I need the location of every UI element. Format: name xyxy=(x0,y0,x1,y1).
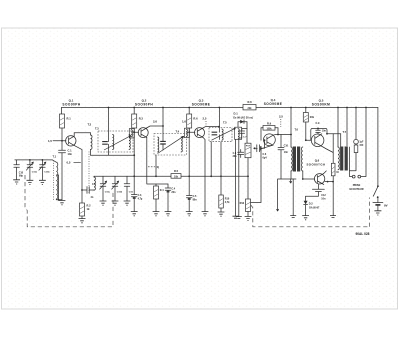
wire: T7 center tap xyxy=(346,108,348,147)
battery 9V xyxy=(373,197,383,211)
dashed gang: volume switch link xyxy=(251,198,370,227)
capacitor C12 xyxy=(306,184,325,196)
T7 secondary xyxy=(350,147,353,177)
ground: battery xyxy=(374,211,381,215)
wire: Q5 over line xyxy=(311,128,341,146)
capacitor C8 xyxy=(238,150,244,158)
svg-text:4,7µ: 4,7µ xyxy=(138,197,143,200)
svg-text:ECOUTEUR: ECOUTEUR xyxy=(349,188,363,191)
resistor R1 xyxy=(60,114,65,128)
svg-text:T.3: T.3 xyxy=(95,127,99,131)
T2 secondary winding xyxy=(94,177,95,190)
svg-text:2,6: 2,6 xyxy=(153,120,157,124)
transistor Q3 xyxy=(195,128,205,138)
variable capacitor C15b xyxy=(40,160,46,180)
ground: R10 xyxy=(218,212,225,216)
T3 secondary box xyxy=(129,129,134,138)
svg-text:C.4: C.4 xyxy=(171,188,175,191)
resistor R11 xyxy=(305,108,307,141)
ground: R4 xyxy=(153,212,160,216)
svg-text:10k: 10k xyxy=(174,176,179,179)
wire: T4 bottom drop xyxy=(155,155,157,176)
wire: tank / AGC bus xyxy=(94,175,248,177)
svg-text:SOO80TGH: SOO80TGH xyxy=(306,162,325,166)
svg-text:90AL 028: 90AL 028 xyxy=(356,232,370,236)
wire: antenna tuning top xyxy=(15,159,53,161)
transistor Q2 xyxy=(138,128,148,138)
transistor Q5 xyxy=(311,134,324,147)
resistor R9 xyxy=(263,126,275,131)
svg-text:R10: R10 xyxy=(225,197,230,200)
dashed gang: tuning capacitors xyxy=(25,175,113,227)
svg-text:6µ4: 6µ4 xyxy=(263,157,268,160)
svg-text:C.2: C.2 xyxy=(92,183,96,186)
capacitor C6 xyxy=(257,140,265,152)
wire: T6 primary bottom rail xyxy=(277,171,296,211)
resistor R4 xyxy=(155,184,157,212)
wire: T3 bottom rail xyxy=(91,154,135,156)
capacitor C16 padder xyxy=(124,176,130,201)
svg-text:D.2: D.2 xyxy=(309,203,314,206)
wire: Q3 base xyxy=(187,131,195,133)
svg-text:C10: C10 xyxy=(19,172,24,174)
resistor R12 xyxy=(246,199,251,212)
svg-text:D.1: D.1 xyxy=(234,112,239,116)
svg-text:R.1: R.1 xyxy=(67,117,72,121)
svg-text:T.1: T.1 xyxy=(53,155,57,159)
resistor R3 xyxy=(133,108,135,133)
wire: Q3 collector xyxy=(203,127,219,128)
capacitor C7 xyxy=(239,129,247,217)
svg-text:R.9: R.9 xyxy=(267,121,272,125)
svg-text:C.3: C.3 xyxy=(138,194,142,197)
svg-text:R.6: R.6 xyxy=(193,117,198,121)
svg-text:100k: 100k xyxy=(266,128,272,130)
ground: R12 xyxy=(245,216,252,220)
capacitor C10 xyxy=(14,160,20,180)
capacitor C4 xyxy=(165,184,171,212)
svg-text:OA 95-97: OA 95-97 xyxy=(309,207,320,210)
wire: T1 tap xyxy=(56,175,58,200)
potentiometer P1 xyxy=(245,143,251,158)
svg-text:R.8: R.8 xyxy=(247,100,252,104)
capacitor C3 xyxy=(131,176,137,211)
svg-text:10n: 10n xyxy=(68,152,73,156)
svg-text:22k: 22k xyxy=(248,107,253,110)
svg-text:9V: 9V xyxy=(384,204,388,208)
wire: diode output down to pot xyxy=(247,122,248,144)
node: Q4 base xyxy=(264,139,266,141)
svg-text:20k: 20k xyxy=(310,116,315,119)
transistor Q6 xyxy=(314,174,324,184)
ground: D2 xyxy=(302,216,309,220)
wire: pot bottom to R12 xyxy=(247,158,249,199)
svg-text:T.2: T.2 xyxy=(88,122,92,126)
ground: C5 xyxy=(186,212,193,216)
ground: C10 xyxy=(13,180,20,184)
svg-text:C12: C12 xyxy=(321,194,326,197)
resistor R6 xyxy=(188,108,190,133)
wire: Q4 emitter xyxy=(251,145,273,202)
svg-text:2,5: 2,5 xyxy=(203,117,207,121)
wire: detector ground drops xyxy=(235,139,237,216)
wire: rail ground drop xyxy=(292,179,294,216)
wire: Q1 collector chain vertical xyxy=(61,108,64,200)
T4 secondary box xyxy=(184,128,189,137)
svg-text:10n: 10n xyxy=(321,198,326,201)
node: Q1 base junction xyxy=(61,140,63,142)
svg-text:10n: 10n xyxy=(284,151,289,154)
variable capacitor C15a xyxy=(27,160,33,180)
wire: Q3 emitter xyxy=(203,138,205,212)
svg-text:C.1: C.1 xyxy=(68,148,73,152)
svg-text:10n: 10n xyxy=(322,130,327,133)
earphone jack xyxy=(352,175,355,178)
resistor hatching xyxy=(60,118,64,125)
svg-text:C15a: C15a xyxy=(32,172,38,174)
ground: C4 xyxy=(165,212,172,216)
svg-text:SOO90PH: SOO90PH xyxy=(135,102,153,106)
svg-text:C10: C10 xyxy=(284,144,289,147)
variable capacitor C15d xyxy=(112,176,118,201)
wire: T1 bottom xyxy=(56,198,62,201)
svg-text:SOS90KM: SOS90KM xyxy=(312,102,330,106)
svg-text:4,7k: 4,7k xyxy=(225,201,230,204)
variable capacitor C15c xyxy=(100,176,106,201)
svg-text:C.6: C.6 xyxy=(263,153,267,156)
resistor R8 in bus xyxy=(243,105,256,110)
T6 secondary xyxy=(301,147,302,171)
svg-text:T.5: T.5 xyxy=(223,120,227,124)
diode D2 xyxy=(305,196,307,201)
capacitor C10 xyxy=(278,135,284,180)
ground: C15d xyxy=(112,201,119,205)
node: emitter/C2 junction xyxy=(81,189,83,191)
svg-text:C.9: C.9 xyxy=(316,122,321,125)
wire: Q2 emitter xyxy=(147,138,168,185)
wire: Q1 base lead xyxy=(53,140,66,142)
ground: C15b xyxy=(39,180,46,184)
svg-text:1,5: 1,5 xyxy=(48,139,52,143)
wire: Q5 base xyxy=(306,139,312,141)
svg-text:20n: 20n xyxy=(171,191,176,194)
svg-text:T.6: T.6 xyxy=(295,128,299,132)
ground: C15c xyxy=(100,201,107,205)
svg-text:R.2: R.2 xyxy=(87,203,92,207)
ground: C15a xyxy=(27,180,34,184)
svg-text:0,5: 0,5 xyxy=(67,161,71,165)
resistor R10 xyxy=(220,142,222,212)
svg-text:C15b: C15b xyxy=(44,172,50,174)
svg-text:20n: 20n xyxy=(233,156,238,158)
transistor Q1 xyxy=(66,136,76,146)
wire: Q1 emitter drop xyxy=(74,146,82,190)
svg-text:R.5: R.5 xyxy=(174,169,179,173)
transistor Q4 xyxy=(264,134,276,146)
ground: T1 xyxy=(59,201,66,205)
wire: top supply bus xyxy=(62,107,378,109)
wire: Q1 collector to T2 xyxy=(74,133,90,137)
svg-text:SOO90ME: SOO90ME xyxy=(264,102,283,106)
svg-text:SOO90ME: SOO90ME xyxy=(192,102,211,106)
wire: Q4 collector xyxy=(273,134,291,137)
svg-text:T.7: T.7 xyxy=(343,130,347,134)
svg-text:PRISE: PRISE xyxy=(353,184,361,187)
svg-text:R12: R12 xyxy=(240,202,245,205)
svg-text:C15d: C15d xyxy=(117,191,123,193)
capacitor C9 xyxy=(317,127,319,129)
resistor R13 xyxy=(332,134,334,182)
svg-text:SOO90PH: SOO90PH xyxy=(62,102,80,106)
capacitor C2 xyxy=(82,187,94,194)
wire: Q3 base to bus xyxy=(188,132,190,176)
switch S1 xyxy=(377,108,379,186)
svg-text:C15c: C15c xyxy=(105,191,111,193)
capacitor C1 xyxy=(59,150,66,153)
detector secondary winding xyxy=(235,127,242,139)
ground: C16 xyxy=(124,201,131,205)
wire: Q2 base xyxy=(133,131,139,133)
wire: Q6 collector to R13 xyxy=(324,171,334,216)
wire: R3 column to bus xyxy=(133,132,135,176)
svg-text:Ge 99 (AO 30 es): Ge 99 (AO 30 es) xyxy=(233,116,253,119)
tone network C11/R14 xyxy=(355,108,357,140)
capacitor C5 xyxy=(186,176,192,211)
wire: Q2 collector xyxy=(147,126,163,128)
svg-text:T.4: T.4 xyxy=(176,129,180,133)
ground: Q3 emitter xyxy=(202,212,209,216)
resistor R2 xyxy=(81,190,83,219)
wire: T5 bottom drop xyxy=(210,142,212,177)
resistor R5 in bus xyxy=(171,174,181,179)
ground: C3 xyxy=(131,212,138,216)
ground: R2 xyxy=(79,219,86,223)
annotation (1) xyxy=(148,166,155,168)
svg-text:R.3: R.3 xyxy=(139,117,144,121)
svg-text:C.5: C.5 xyxy=(193,195,197,198)
svg-text:R.4: R.4 xyxy=(160,189,164,192)
svg-text:80n: 80n xyxy=(193,198,198,201)
svg-text:1,6: 1,6 xyxy=(182,119,186,123)
svg-text:2,5: 2,5 xyxy=(279,115,283,119)
svg-text:1µF: 1µF xyxy=(359,141,364,143)
svg-text:90p: 90p xyxy=(19,176,24,178)
